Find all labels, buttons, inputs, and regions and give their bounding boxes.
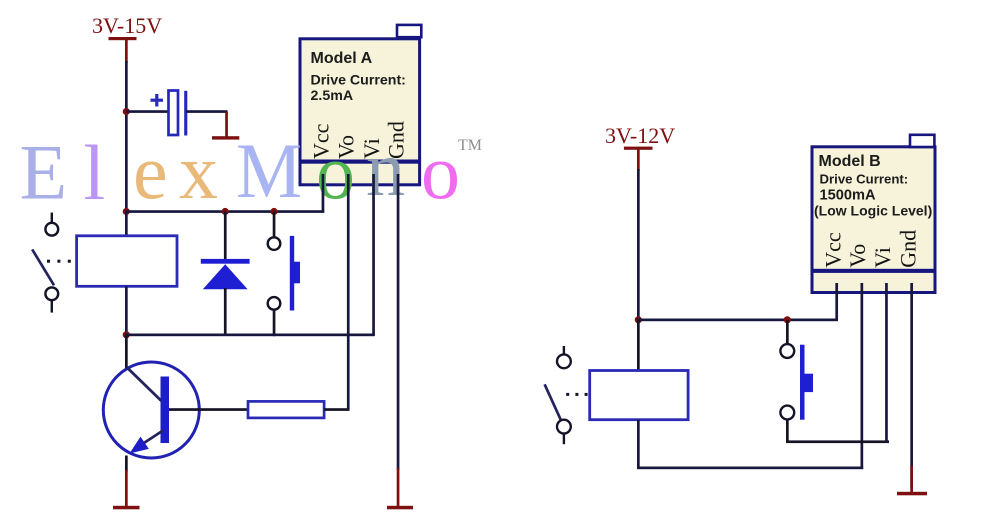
wire button top right — [786, 320, 789, 345]
capacitor C1 right plate — [184, 91, 187, 136]
svg-text:M: M — [236, 127, 302, 214]
node button top — [270, 208, 277, 215]
wire button top — [273, 212, 276, 238]
wire cap ground stub (red) — [225, 112, 228, 137]
wire bottom rail right — [637, 467, 863, 470]
switch S2 linkage dots — [566, 393, 587, 396]
wire base — [169, 408, 249, 411]
wire button bottom right — [786, 419, 789, 442]
push button SW1 knob — [293, 262, 300, 284]
svg-text:o: o — [421, 128, 460, 215]
svg-text:Vcc: Vcc — [309, 123, 334, 159]
transistor Q1 collector diagonal — [127, 367, 163, 402]
switch S2 top contact — [557, 354, 571, 368]
wire relay top — [125, 212, 128, 237]
module U1 tab — [397, 25, 421, 37]
switch S1 lever — [32, 249, 54, 285]
svg-text:l: l — [84, 129, 106, 216]
wire diode bottom — [224, 288, 227, 335]
module U2 band — [812, 269, 935, 273]
svg-text:1500mA: 1500mA — [820, 188, 876, 204]
svg-text:TM: TM — [458, 137, 482, 154]
svg-text:Drive Current:: Drive Current: — [820, 172, 909, 187]
switch S2 bottom stub — [563, 434, 565, 445]
capacitor C1 plus sign — [151, 94, 164, 107]
wire supply down right (dark) — [637, 169, 640, 321]
svg-text:Vcc: Vcc — [821, 232, 846, 268]
node rail junction — [123, 208, 130, 215]
capacitor C1 left plate — [169, 91, 179, 136]
ground emitter — [113, 506, 140, 510]
svg-text:E: E — [20, 129, 68, 216]
module U2 Model B body — [812, 147, 935, 293]
node rail junction right — [635, 316, 642, 323]
ground module A — [387, 506, 413, 510]
wire top rail — [125, 210, 324, 213]
svg-text:Vo: Vo — [845, 244, 870, 268]
diode D1 cathode bar — [201, 259, 250, 264]
wire button bottom — [273, 310, 276, 337]
switch S1 top stub — [51, 213, 53, 223]
wire cap left — [126, 110, 169, 113]
wire pin Vcc A — [322, 174, 325, 213]
push button SW2 bottom contact — [780, 406, 794, 420]
supply rail bar right — [624, 147, 653, 150]
wire pin Gnd B — [910, 283, 913, 488]
svg-text:Model A: Model A — [311, 50, 373, 67]
push button SW2 top contact — [780, 344, 794, 358]
wire supply down right (red) — [637, 149, 640, 171]
wire emitter ground stub (red) — [125, 470, 128, 507]
svg-text:Model B: Model B — [819, 153, 881, 170]
relay coil K2 — [590, 371, 688, 420]
node diode top — [222, 208, 229, 215]
module U1 band — [300, 160, 420, 164]
switch S1 linkage dots — [47, 260, 71, 263]
wire cap right — [186, 110, 228, 113]
wire top rail right — [637, 319, 838, 322]
push button SW2 knob — [803, 374, 813, 392]
wire pin Vi A — [372, 174, 375, 336]
node collector junction — [123, 331, 130, 338]
svg-text:Vo: Vo — [334, 135, 359, 159]
wire emitter down — [125, 456, 128, 472]
switch S1 bottom stub — [51, 300, 53, 312]
wire pin Gnd A — [397, 174, 400, 470]
wire relay bottom right — [637, 420, 640, 468]
ground module B — [897, 492, 927, 496]
svg-text:3V-12V: 3V-12V — [605, 123, 675, 148]
switch S2 top stub — [563, 346, 565, 355]
wire diode top — [224, 212, 227, 260]
node cap junction — [123, 108, 130, 115]
node button top right — [784, 316, 791, 323]
svg-text:Vi: Vi — [870, 247, 895, 268]
switch S1 bottom contact — [45, 287, 58, 300]
wire collector — [125, 335, 128, 369]
watermark ElexMono — [20, 125, 461, 216]
svg-text:x: x — [179, 128, 218, 215]
push button SW1 top contact — [268, 237, 281, 250]
wire resistor right — [324, 408, 349, 411]
wire pin Gnd B ground stub (red) — [910, 466, 913, 493]
module U1 Model A body — [300, 39, 420, 185]
wire relay top right — [637, 320, 640, 372]
wire lower rail — [125, 334, 375, 337]
switch S2 lever — [545, 384, 561, 419]
wire pin Gnd A ground stub (red) — [397, 468, 400, 506]
transistor Q1 emitter arrow — [130, 437, 149, 454]
svg-text:(Low Logic Level): (Low Logic Level) — [814, 203, 932, 219]
module U2 tab — [910, 135, 934, 147]
svg-text:Gnd: Gnd — [383, 121, 408, 159]
relay coil K1 — [77, 236, 177, 286]
svg-text:e: e — [133, 128, 168, 215]
wire pin Vcc B — [835, 283, 838, 320]
wire pin Vo B riser — [861, 283, 864, 469]
switch S1 top contact — [45, 223, 58, 236]
svg-text:Vi: Vi — [359, 138, 384, 159]
ground cap — [212, 136, 239, 139]
push button SW1 bottom contact — [268, 297, 281, 310]
diode D1 triangle — [203, 264, 248, 289]
supply rail bar — [109, 37, 137, 40]
resistor R1 — [248, 401, 324, 418]
wire pin Vo A — [347, 174, 350, 410]
wire pin Vi B riser — [885, 283, 888, 443]
transistor Q1 body — [103, 362, 199, 458]
switch S2 bottom contact — [557, 420, 571, 434]
transistor Q1 emitter diagonal — [137, 431, 163, 448]
wire relay bottom — [125, 286, 128, 335]
push button SW2 bar — [800, 345, 805, 420]
push button SW1 bar — [290, 236, 294, 311]
svg-text:Gnd: Gnd — [896, 230, 921, 268]
transistor Q1 base bar — [161, 377, 170, 444]
svg-text:Drive Current:: Drive Current: — [311, 73, 406, 89]
wire supply down (dark) — [125, 61, 128, 213]
wire supply down (red) — [125, 39, 128, 63]
svg-text:2.5mA: 2.5mA — [311, 88, 354, 104]
wire button bottom rail right — [786, 440, 889, 443]
svg-text:3V-15V: 3V-15V — [92, 13, 162, 38]
